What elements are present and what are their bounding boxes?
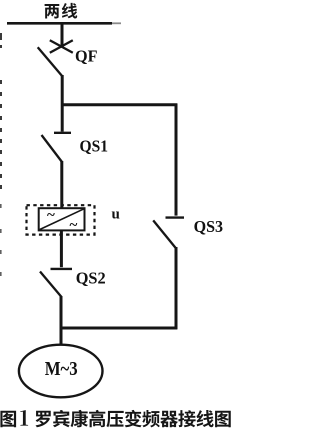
bus line (incoming supply) <box>7 22 112 25</box>
svg-text:~: ~ <box>47 208 55 224</box>
svg-text:QS2: QS2 <box>76 269 106 288</box>
svg-text:QF: QF <box>75 47 98 66</box>
wire QF to QS1 <box>61 75 64 132</box>
wire QS1 to inverter <box>60 161 63 209</box>
svg-text:QS3: QS3 <box>194 217 224 236</box>
wire QS2 to motor <box>60 296 63 345</box>
wire bypass return (bottom horizontal) <box>60 327 177 330</box>
wire bypass branch vertical (lower) <box>175 247 178 329</box>
wire bypass branch vertical (upper) <box>175 104 178 216</box>
wire inverter to QS2 <box>60 230 63 267</box>
svg-text:~: ~ <box>70 218 78 234</box>
inverter diagonal <box>40 209 85 230</box>
breaker QF blade <box>38 47 63 76</box>
breaker QF contact (X) <box>50 40 73 53</box>
motor M~3 circle <box>19 345 103 398</box>
inverter enclosure (dashed) <box>27 205 95 234</box>
wire bus to QF <box>61 23 64 46</box>
caption 图1 罗宾康高压变频器接线图 <box>0 410 230 427</box>
switch QS1 blade <box>42 135 63 162</box>
switch QS2 contact bar <box>51 268 73 270</box>
bus label 两线 <box>45 3 78 19</box>
svg-text:u: u <box>112 207 120 223</box>
switch QS3 blade <box>153 220 176 248</box>
svg-text:M~3: M~3 <box>45 358 78 380</box>
switch QS2 blade <box>40 272 62 298</box>
switch QS1 contact bar <box>54 132 71 134</box>
wire to bypass branch (top horizontal) <box>61 103 177 106</box>
switch QS3 contact bar <box>166 216 185 218</box>
inverter U converter box <box>39 208 85 230</box>
svg-text:QS1: QS1 <box>80 136 109 155</box>
